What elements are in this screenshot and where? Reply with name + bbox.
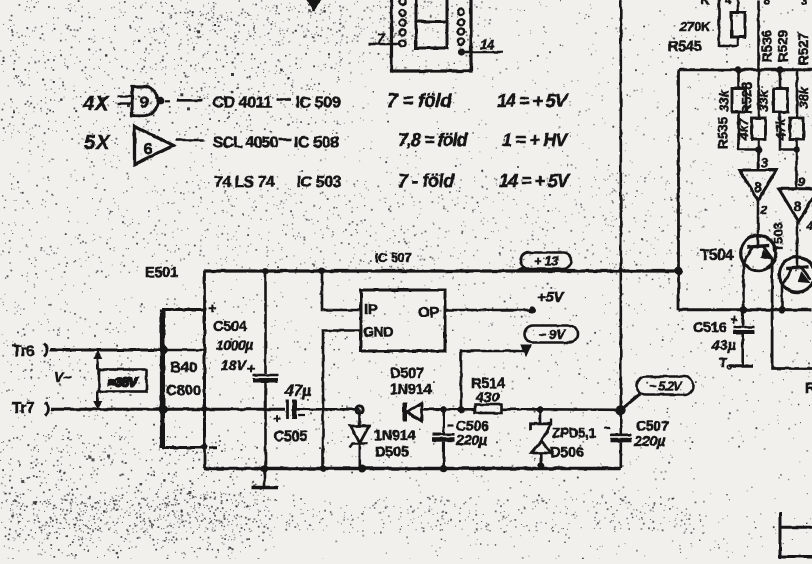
label 430	[475, 389, 500, 405]
label R536 vertical	[760, 29, 775, 62]
node junction	[201, 444, 207, 450]
resistor R528	[732, 89, 746, 113]
node junction	[779, 306, 786, 313]
svg-text:D506: D506	[550, 445, 584, 461]
label R514	[471, 376, 505, 392]
svg-text:E501: E501	[145, 265, 178, 281]
label 5X quantity	[84, 132, 111, 154]
ground	[252, 469, 279, 488]
pin 3 label	[761, 156, 768, 170]
label IP	[364, 301, 378, 318]
wire bottom rail	[205, 467, 621, 470]
transistor T504	[741, 236, 776, 271]
capacitor C516	[730, 310, 755, 366]
wire R528 top lead	[737, 70, 740, 89]
resistor R514	[475, 405, 540, 414]
label C507	[636, 418, 669, 434]
node junction	[159, 405, 168, 414]
resistor R535	[752, 118, 766, 140]
label OP	[418, 304, 439, 321]
label IC 508	[294, 135, 339, 152]
svg-text:C504: C504	[213, 319, 247, 335]
label 270K	[679, 19, 712, 34]
node junction	[537, 462, 544, 469]
wire gate to T503	[796, 222, 799, 259]
wire R536 bottom lead	[780, 112, 797, 150]
label R529 vertical	[776, 30, 791, 62]
svg-text:R527: R527	[796, 33, 811, 65]
label 43u	[711, 337, 736, 353]
label SCL 4050	[213, 135, 279, 152]
capacitor C505	[273, 400, 305, 427]
svg-text:R529: R529	[776, 30, 791, 62]
label 1N914 d505	[374, 428, 415, 444]
label IC 503	[297, 174, 342, 191]
svg-text:18V: 18V	[221, 357, 248, 373]
smudge arrow top	[307, 0, 321, 10]
note row3 pins	[398, 171, 455, 191]
node junction	[358, 465, 366, 473]
wire dash	[176, 139, 204, 142]
cut label top b	[725, 0, 732, 7]
node junction	[261, 465, 269, 473]
wire Tr6	[50, 349, 164, 352]
svg-text:CD 4011: CD 4011	[213, 95, 273, 112]
svg-text:1 = + HV: 1 = + HV	[502, 130, 569, 150]
wire Tr7 through bridge	[164, 408, 286, 411]
resistor R545	[732, 13, 746, 38]
svg-text:IC 508: IC 508	[294, 135, 339, 152]
node junction	[440, 406, 447, 413]
label E501	[145, 265, 178, 281]
svg-text:+: +	[273, 411, 281, 426]
svg-text:R545: R545	[668, 39, 702, 55]
svg-text:7 - föld: 7 - föld	[398, 171, 455, 191]
wire right frame vertical	[677, 70, 680, 310]
note row2 supply	[502, 130, 569, 150]
svg-text:1000µ: 1000µ	[216, 337, 253, 353]
pin 2 label	[760, 203, 768, 217]
wire R529 bottom	[795, 140, 798, 189]
svg-text:+5V: +5V	[537, 289, 566, 306]
wire bridge plus lead	[203, 271, 206, 310]
minus mark bridge	[209, 446, 217, 448]
svg-text:R535: R535	[716, 116, 731, 149]
cut label R5 edge	[805, 381, 812, 397]
svg-text:− 9V: − 9V	[538, 327, 566, 342]
node junction big	[674, 267, 683, 276]
svg-text:14 = + 5V: 14 = + 5V	[497, 91, 569, 111]
svg-text:C516: C516	[693, 320, 727, 336]
voltage 38V box	[99, 370, 147, 392]
svg-text:14 = + 5V: 14 = + 5V	[499, 171, 571, 191]
diode D507	[403, 403, 444, 423]
label C504	[213, 319, 247, 335]
resistor R529b	[790, 118, 804, 140]
svg-text:C505: C505	[274, 429, 308, 445]
display pin 14 with wire	[458, 37, 503, 56]
label IC 509	[296, 95, 341, 112]
zener diode D506	[531, 410, 552, 469]
svg-text:4k7: 4k7	[736, 117, 751, 140]
node junction	[458, 406, 465, 413]
wire right rail	[679, 308, 812, 311]
terminal Tr6	[12, 343, 48, 360]
wire Tr7	[51, 408, 164, 411]
svg-text:4: 4	[806, 219, 812, 233]
node junction	[159, 346, 168, 355]
label C800	[166, 382, 201, 399]
svg-text:IP: IP	[364, 301, 378, 318]
display segment figure	[416, 0, 447, 48]
label 220u c507	[633, 434, 666, 450]
svg-text:B40: B40	[170, 359, 197, 376]
wire IP input	[322, 271, 361, 310]
transistor T503	[779, 257, 812, 292]
label 38k value edge	[796, 86, 811, 108]
terminal Tr7	[12, 400, 49, 417]
resistor R536	[774, 89, 788, 113]
svg-text:8: 8	[763, 0, 770, 8]
label R535 vertical	[716, 116, 731, 149]
svg-text:430: 430	[475, 389, 500, 405]
label V~	[54, 369, 72, 385]
svg-text:C800: C800	[166, 382, 201, 399]
svg-text:47µ: 47µ	[284, 383, 311, 400]
svg-text:− 5.2V: − 5.2V	[649, 380, 683, 394]
svg-text:≈38V: ≈38V	[108, 375, 138, 390]
wire +13 rail	[204, 269, 678, 272]
svg-text:7: 7	[377, 30, 386, 46]
wire R545 top lead	[737, 0, 740, 13]
wire R535 bottom	[757, 140, 760, 170]
pin 9 label	[798, 175, 805, 189]
voltage arrow up	[94, 351, 102, 370]
label 18V	[221, 357, 248, 373]
node junction	[777, 66, 784, 73]
cut label top d	[801, 0, 808, 8]
note row2 pins	[398, 130, 469, 150]
note row1 supply	[497, 91, 569, 111]
svg-text:R528: R528	[740, 81, 755, 114]
svg-text:IC 503: IC 503	[297, 174, 342, 191]
svg-text:38k: 38k	[796, 86, 811, 108]
capacitor C506	[433, 410, 455, 469]
label D507	[390, 366, 424, 382]
svg-text:V~: V~	[54, 369, 72, 385]
svg-text:GND: GND	[363, 324, 393, 340]
svg-text:9: 9	[798, 175, 805, 189]
plus mark bridge	[208, 300, 216, 316]
node junction	[740, 306, 747, 313]
wire R536 top lead	[779, 70, 782, 89]
wire R545 bottom lead	[737, 37, 740, 46]
svg-text:1N914: 1N914	[390, 382, 431, 398]
svg-text:270K: 270K	[679, 19, 712, 34]
node junction big	[616, 405, 626, 415]
display left pins	[399, 0, 405, 35]
note row1 pins	[387, 91, 452, 112]
net -9V oval	[521, 326, 578, 357]
voltage arrow down	[94, 392, 102, 409]
svg-text:K: K	[701, 0, 710, 7]
note row3 supply	[499, 171, 571, 191]
svg-text:220µ: 220µ	[633, 434, 666, 450]
label C506	[456, 418, 489, 434]
svg-text:C506: C506	[456, 418, 489, 434]
svg-text:47k: 47k	[773, 117, 788, 140]
svg-text:33k: 33k	[756, 89, 771, 111]
svg-text:R536: R536	[760, 29, 775, 62]
diode D505	[350, 410, 370, 469]
label CD 4011	[213, 95, 273, 112]
wire dash	[277, 98, 292, 101]
label D505	[375, 445, 409, 461]
svg-text:IC 507: IC 507	[375, 250, 412, 265]
svg-text:IC 509: IC 509	[296, 95, 341, 112]
wire after C505	[297, 408, 360, 411]
svg-text:o: o	[727, 362, 733, 372]
svg-text:33k: 33k	[717, 89, 732, 111]
svg-text:8: 8	[794, 198, 802, 214]
label T504	[700, 247, 734, 264]
svg-text:OP: OP	[418, 304, 439, 321]
display right pins	[458, 9, 464, 45]
svg-text:Tr6: Tr6	[12, 343, 35, 360]
node junction	[202, 406, 208, 412]
label R528 vertical	[740, 81, 755, 114]
svg-text:8: 8	[754, 179, 762, 195]
display pin 7 with wire	[369, 30, 406, 47]
wire vertical left of R545	[719, 0, 738, 46]
pin 4 label partial	[806, 219, 812, 233]
svg-text:1N914: 1N914	[374, 428, 415, 444]
gate U504 triangle	[740, 170, 777, 201]
label B40	[170, 359, 197, 376]
svg-text:Tr7: Tr7	[12, 400, 34, 417]
wire dash	[177, 99, 203, 102]
svg-text:SCL 4050: SCL 4050	[213, 135, 279, 152]
svg-text:43µ: 43µ	[711, 337, 736, 353]
label C516	[693, 320, 727, 336]
node junction ring	[356, 406, 363, 413]
wire Tr6 inside bridge	[164, 349, 205, 352]
label C505	[274, 429, 308, 445]
cut label top a	[701, 0, 710, 7]
plus mark C504	[247, 361, 255, 376]
svg-text:T: T	[719, 355, 727, 370]
wire to -5.2 node	[540, 408, 621, 411]
label 47k value	[773, 117, 788, 140]
svg-text:T504: T504	[700, 247, 734, 264]
wire OP output	[445, 309, 532, 312]
wire to R514	[444, 408, 475, 411]
svg-text:74 LS 74: 74 LS 74	[214, 174, 275, 191]
label IC507	[375, 250, 412, 265]
display module box	[392, 0, 472, 71]
svg-text:4: 4	[725, 0, 732, 7]
svg-text:7 = föld: 7 = föld	[387, 91, 452, 112]
wire far right vertical	[796, 70, 799, 118]
wire T504 collector drop	[772, 259, 812, 369]
svg-text:6: 6	[144, 141, 153, 158]
nand gate IC509 symbol	[118, 87, 171, 116]
wire R528 bottom lead	[739, 112, 759, 150]
svg-text:3: 3	[761, 156, 768, 170]
label 220u c506	[455, 433, 488, 449]
wire -9V branch	[461, 351, 524, 409]
terminal To	[719, 355, 753, 372]
label 1N914 d507	[390, 382, 431, 398]
regulator IC507 box	[361, 290, 445, 351]
svg-text:7,8 = föld: 7,8 = föld	[398, 130, 469, 150]
svg-text:14: 14	[480, 37, 495, 52]
node junction	[262, 268, 269, 275]
svg-text:2: 2	[760, 203, 768, 217]
svg-text:D505: D505	[375, 445, 409, 461]
label T503 vertical	[771, 222, 786, 252]
capacitor C507	[604, 410, 632, 469]
bridge rectifier B40C800 box	[162, 310, 205, 449]
net -5.2V oval	[622, 377, 694, 410]
svg-text:D507: D507	[390, 366, 424, 382]
svg-text:+: +	[247, 361, 255, 376]
svg-text:T503: T503	[771, 222, 786, 252]
svg-text:+: +	[730, 312, 738, 327]
label GND	[363, 324, 393, 340]
label R527 vertical	[796, 33, 811, 65]
label 74 LS 74	[214, 174, 275, 191]
svg-text:C507: C507	[636, 418, 669, 434]
capacitor C504	[253, 271, 278, 469]
wire dash	[279, 138, 291, 141]
wire T504 emitter	[742, 263, 745, 310]
svg-text:5X: 5X	[84, 132, 111, 154]
node junction	[793, 146, 800, 153]
node junction	[755, 146, 762, 153]
box corner bottom right	[780, 512, 812, 559]
svg-text:ZPD5,1: ZPD5,1	[552, 426, 597, 441]
svg-text:220µ: 220µ	[455, 433, 488, 449]
label 33k value A	[717, 89, 732, 111]
node junction	[735, 66, 742, 73]
wire GND	[323, 331, 361, 469]
label +5V	[537, 289, 566, 306]
label 4X quantity	[82, 93, 110, 115]
label R545	[668, 39, 702, 55]
gate U503 triangle	[779, 189, 812, 222]
svg-text:3: 3	[801, 0, 808, 8]
label ZPD5,1	[552, 426, 597, 441]
label 1000u	[216, 337, 253, 353]
wire vertical bus	[619, 0, 622, 410]
svg-text:9: 9	[140, 95, 149, 112]
node junction	[537, 406, 544, 413]
svg-text:4X: 4X	[82, 93, 110, 115]
wire gate to T504	[757, 201, 760, 237]
buffer gate IC508 symbol	[135, 127, 174, 165]
svg-text:R5: R5	[805, 381, 812, 397]
label 33k value B	[756, 89, 771, 111]
node terminal +5V	[528, 306, 535, 313]
wire +13 rail upper right	[679, 68, 812, 71]
svg-text:+ 13: + 13	[534, 254, 559, 269]
cut label top c	[763, 0, 770, 8]
wire bridge minus lead	[203, 448, 206, 469]
label 4k7 value	[736, 117, 751, 140]
wire vertical to R535	[757, 0, 760, 118]
node junction	[319, 268, 326, 275]
label 47u	[284, 383, 311, 400]
wire T503 emitter	[781, 285, 784, 310]
label D506	[550, 445, 584, 461]
svg-text:+: +	[208, 300, 216, 316]
node junction	[440, 465, 448, 473]
node junction	[320, 465, 327, 472]
net +13 oval	[517, 253, 572, 272]
